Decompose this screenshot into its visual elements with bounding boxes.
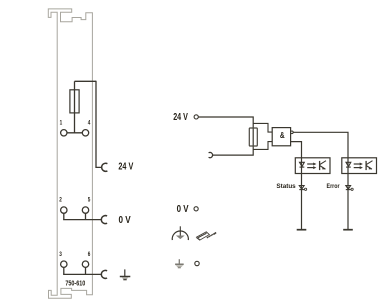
wire AND out top to Error branch: [293, 132, 348, 157]
LED dot: [305, 188, 307, 190]
output node circle: [291, 131, 294, 134]
svg-text:1: 1: [60, 119, 63, 126]
terminal 2: [61, 207, 67, 213]
LED diode in box: [300, 162, 305, 166]
LED indicator Status: [299, 186, 306, 191]
power jumper contact dome symbol: [172, 226, 188, 240]
wire stubs row 2-5: [64, 213, 86, 220]
svg-text:750-610: 750-610: [65, 280, 85, 287]
svg-text:0 V: 0 V: [119, 215, 131, 226]
opto box frame: [295, 158, 330, 174]
fuse F2: [249, 128, 257, 146]
ground earth symbol right of PE contact: [120, 269, 131, 279]
light arrows: [307, 163, 313, 165]
terminal 1: [61, 130, 67, 136]
svg-text:3: 3: [59, 251, 62, 258]
terminal 3: [61, 261, 67, 267]
terminal circle earth field: [195, 261, 199, 265]
wire through box: [301, 158, 303, 174]
LED cathode bar: [299, 189, 304, 191]
fuse F1: [70, 90, 79, 113]
svg-text:0 V: 0 V: [177, 204, 189, 215]
LED indicator Error: [346, 186, 353, 191]
svg-text:5: 5: [88, 197, 91, 204]
field earth symbol: [175, 259, 184, 268]
svg-text:Error: Error: [327, 183, 340, 190]
LED triangle: [299, 186, 304, 190]
ground bar Error: [343, 229, 353, 231]
contact hook lower left: [209, 153, 213, 158]
wire stubs row 3-6: [64, 267, 86, 274]
terminal circle 24V field: [194, 115, 198, 119]
wire Status down: [301, 174, 303, 230]
svg-text:6: 6: [88, 251, 91, 258]
ground bar Status: [297, 229, 307, 231]
contact arc PE: [101, 270, 107, 278]
svg-text:&: &: [280, 131, 285, 140]
svg-text:Status: Status: [276, 183, 296, 190]
optocoupler box Error: [342, 158, 377, 174]
wire bus 0V: [63, 219, 101, 221]
blade contacts icon: [197, 232, 217, 240]
svg-text:2: 2: [59, 197, 62, 204]
wire row 1-4: [64, 132, 86, 134]
contact arc 24V: [102, 163, 108, 171]
wire tap top to AND: [253, 123, 272, 132]
phototransistor: [319, 161, 321, 170]
wire Error down: [347, 174, 349, 230]
svg-text:24 V: 24 V: [118, 162, 133, 173]
contact arc 0V: [101, 216, 107, 224]
svg-text:24 V: 24 V: [173, 112, 188, 123]
svg-text:4: 4: [88, 119, 91, 126]
terminal 6: [82, 261, 88, 267]
wire AND out bottom to Status branch: [291, 142, 302, 158]
wire 24V drop: [96, 81, 102, 168]
optocoupler box Status: [295, 158, 330, 174]
AND gate U1: [272, 128, 290, 146]
terminal 5: [82, 207, 88, 213]
wire fuse vertical: [74, 81, 76, 133]
wire tap bottom to AND: [253, 142, 272, 150]
wire 24V feed: [198, 117, 253, 155]
module outline 750-610 housing: [48, 9, 92, 298]
terminal 4: [82, 130, 88, 136]
wire bus PE: [63, 273, 101, 275]
terminal circle 0V field: [194, 207, 198, 211]
wire fuse top horizontal: [75, 80, 97, 82]
